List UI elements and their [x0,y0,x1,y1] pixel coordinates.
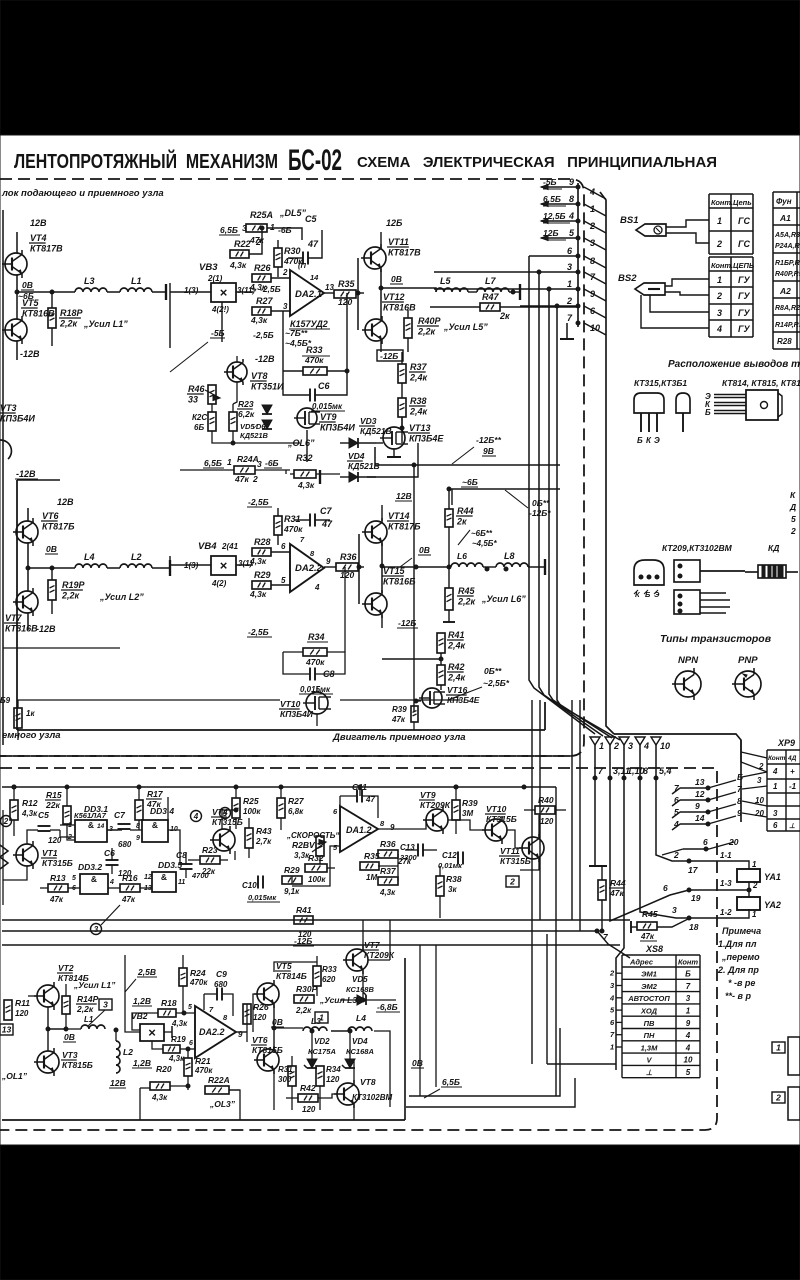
svg-text:R28: R28 [777,337,792,346]
svg-text:DD3.2: DD3.2 [78,862,102,872]
svg-text:DD3.5: DD3.5 [158,860,182,870]
svg-text:4,3к: 4,3к [249,589,267,599]
svg-text:8: 8 [643,766,648,776]
label OL3 [209,1099,236,1109]
svg-text:КД521В: КД521В [360,426,392,436]
svg-text:-12Б: -12Б [398,618,416,628]
transistor VT11c [499,834,544,866]
inductor L1b [64,1015,105,1031]
svg-text:100к: 100к [243,807,261,816]
svg-text:2,4к: 2,4к [409,407,428,417]
svg-text:R47: R47 [482,292,500,302]
svg-text:„Усил L1”: „Усил L1” [73,980,116,990]
ic DD3.5 [144,860,185,892]
svg-text:-2,5Б: -2,5Б [248,497,269,507]
transistor VT7c [343,940,395,974]
svg-text:VТ4: VТ4 [212,807,228,817]
svg-text:КТ209К: КТ209К [420,800,451,810]
svg-text:4: 4 [568,211,574,221]
svg-text:„ОL1”: „ОL1” [1,1071,28,1081]
fet VT9 [294,408,355,433]
svg-text:БС-02: БС-02 [288,144,342,177]
bus wire row2 drop [520,304,620,740]
resistor R39c [391,705,418,730]
svg-text:6Б: 6Б [194,423,204,432]
wire VT6-VT7 emitters [26,543,30,591]
svg-text:2,2к: 2,2к [457,597,476,607]
label 0V rowB2 [271,1017,284,1027]
svg-text:L4: L4 [356,1013,366,1023]
svg-text:R46: R46 [188,384,206,394]
table XS8 [622,955,700,1078]
diode VD6 [240,420,272,440]
table BS1 contacts [709,194,753,254]
svg-text:Цепь: Цепь [733,198,752,207]
circled 5 [220,808,231,819]
svg-text:СХЕМА ЭЛЕКТРИЧЕСКАЯ ПРИНЦИ: СХЕМА ЭЛЕКТРИЧЕСКАЯ ПРИНЦИПИАЛЬНАЯ [357,154,717,171]
fan row 4-14 [672,808,767,830]
resistor R41b [294,905,313,939]
svg-text:1.Для пл: 1.Для пл [718,939,757,949]
svg-text:-2,5Б: -2,5Б [248,627,269,637]
svg-text:С13: С13 [400,843,415,852]
svg-text:А1: А1 [779,213,791,223]
svg-text:12В: 12В [57,497,74,507]
svg-text:2: 2 [716,239,722,249]
svg-text:0,01мк: 0,01мк [438,861,463,870]
svg-text:-5Б: -5Б [543,177,557,187]
wires rowA extra2 [222,785,398,881]
svg-text:VВ3: VВ3 [199,262,218,273]
inductor L3b [303,1016,327,1031]
transistor VT6 [13,511,75,546]
wire to L6 line [382,565,451,569]
svg-text:Э: Э [654,436,660,445]
svg-text:1: 1 [270,222,275,232]
resistor R23c [188,845,228,876]
wire YA2 feed [687,879,758,903]
svg-text:R30: R30 [284,246,301,256]
svg-text:R26: R26 [253,1002,269,1012]
transistor VT8b [334,1077,392,1108]
fan row 7-13 [672,772,767,794]
wire bases vertical [357,258,359,330]
wire to L5 line [381,288,436,292]
svg-text:VТ13: VТ13 [409,423,431,433]
svg-text:4: 4 [193,812,199,821]
svg-text:2: 2 [282,268,288,277]
inductor L6 [451,551,483,567]
label VB4 [198,541,239,552]
svg-text:R27: R27 [288,796,305,806]
caption KT814 [722,378,800,388]
transistor VT2b [34,963,89,1010]
resistor R19b [152,1035,195,1063]
svg-text:КТ815Б: КТ815Б [62,1060,93,1070]
svg-text:6,5Б: 6,5Б [220,225,238,235]
svg-text:R36: R36 [380,839,396,849]
svg-text:120: 120 [338,297,352,307]
svg-text:R1БР,R1: R1БР,R1 [775,260,800,267]
svg-text:VТ3: VТ3 [62,1050,78,1060]
svg-text:К561ЛА7: К561ЛА7 [74,811,107,820]
svg-text:6: 6 [703,837,708,847]
resistor R46 [187,384,220,405]
wires rowB verticals [420,945,436,1096]
svg-text:К: К [790,490,796,500]
svg-text:R18Р: R18Р [60,308,84,318]
symbol PNP [732,668,761,700]
svg-text:R44: R44 [610,878,626,888]
wire VT7 down [28,613,56,634]
svg-text:-6Б: -6Б [265,458,279,468]
wire R32 row [290,473,340,475]
svg-text:КТ817Б: КТ817Б [42,522,75,532]
svg-text:ХР9: ХР9 [777,738,795,748]
svg-text:-12Б**: -12Б** [476,435,502,445]
motor caption [332,732,466,743]
svg-text:2. Для пр: 2. Для пр [717,965,759,975]
svg-text:„Усил L1”: „Усил L1” [83,319,128,329]
resistor R45c [631,909,688,941]
feedback wires [283,371,347,395]
capacitor C9 [204,969,233,1016]
svg-text:1: 1 [567,279,572,289]
wire VB3 left [170,283,211,301]
svg-text:R12: R12 [22,798,38,808]
inductor L5 [436,276,468,292]
wire 2.5V feed [125,955,140,1032]
flag 2a [506,876,519,887]
svg-text:С5: С5 [305,214,317,224]
ladder row pin 5-3 [541,228,606,250]
svg-text:4: 4 [716,324,722,334]
svg-text:КТ816В: КТ816В [22,309,55,319]
svg-text:13: 13 [2,1025,12,1035]
svg-text:С9: С9 [216,969,227,979]
label 0V rowB [63,1032,76,1042]
resistor R18P [48,292,128,346]
svg-text:120: 120 [326,1075,340,1084]
svg-text:12В: 12В [30,218,47,228]
wire L8 to terminal [483,559,545,575]
capacitor C7b [107,810,142,849]
svg-text:680: 680 [118,840,132,849]
svg-text:18: 18 [689,922,699,932]
wire YA1 feed [687,851,757,875]
svg-text:3: 3 [672,905,677,915]
svg-text:10: 10 [755,796,764,805]
svg-text:300: 300 [278,1075,292,1084]
svg-text:10: 10 [660,741,670,751]
resistor R29 [249,570,290,599]
electromagnet YA2 [737,897,781,910]
svg-text:R20: R20 [156,1064,172,1074]
svg-text:ХS8: ХS8 [645,944,663,954]
wire VB3 right [236,291,253,293]
svg-text:1: 1 [752,910,757,919]
upper block caption [1,188,164,199]
svg-text:3: 3 [717,308,722,318]
wire VT4-VT5 emitters [15,275,19,319]
svg-text:КД521В: КД521В [240,431,269,440]
svg-text:2,2к: 2,2к [61,591,80,601]
svg-text:~6Б**: ~6Б** [471,529,493,538]
svg-text:ГУ: ГУ [738,324,751,334]
wire VT5 emitter down [17,341,40,360]
inductor L1 [120,276,152,292]
transistor VT1b [13,841,73,869]
svg-text:ГУ: ГУ [738,275,751,285]
labels 0B starred [448,666,510,700]
capacitor C6 [310,381,345,411]
svg-text:Конт: Конт [678,958,698,967]
ladder row pin 7-10 [567,313,606,335]
node labels 0V [18,280,34,301]
svg-text:PNP: PNP [738,655,758,666]
svg-text:R25А: R25А [250,210,273,220]
transistor VT3 cut label [0,403,35,459]
svg-text:1: 1 [599,741,604,751]
junction node 1,10 [622,766,645,780]
svg-text:R2ВV: R2ВV [292,840,316,850]
resistor R38b [436,866,462,918]
feed row 6.5V [219,223,247,235]
svg-text:12В: 12В [110,1078,126,1088]
zener VD4b [342,1029,374,1068]
ladder voltage underlines [543,189,570,240]
inductor L8 [496,551,528,567]
svg-text:КД: КД [768,543,779,553]
svg-text:7: 7 [686,982,691,991]
heading transistor types [660,633,772,645]
resistor R19P [48,568,144,614]
svg-text:VТ11: VТ11 [388,237,409,247]
svg-text:0Б**: 0Б** [484,666,502,676]
edge cut text KD [789,490,796,536]
ladder row pin 4-2 [541,211,606,233]
ladder row pin 2-6 [566,296,606,318]
resistor R37 [398,352,428,398]
svg-text:КТ814, КТ815, КТ81Б: КТ814, КТ815, КТ81Б [722,378,800,388]
resistor R42b [298,1083,318,1114]
transistor VT8 [224,359,284,392]
wire L2 to terminal [107,560,170,576]
svg-text:+: + [790,767,795,776]
resistor R35b [360,851,380,882]
X9 corner feed [741,740,767,785]
svg-text:120: 120 [302,1105,316,1114]
feedback R34 C8 [283,567,345,694]
svg-text:VD3: VD3 [360,416,377,426]
wires rowB join [140,920,365,1120]
svg-text:R41: R41 [296,905,312,915]
svg-text:Д: Д [789,502,796,512]
svg-text:R22А: R22А [208,1075,230,1085]
svg-text:4(2): 4(2) [211,579,227,588]
svg-text:4,3к: 4,3к [151,1093,168,1102]
svg-text:0В: 0В [419,545,430,555]
svg-text:1М: 1М [366,873,377,882]
svg-text:С6: С6 [318,381,330,391]
label 12V rowB [109,1078,126,1088]
svg-text:КТ315Б: КТ315Б [486,814,517,824]
resistor R47 line [430,292,578,321]
svg-text:1: 1 [717,275,722,285]
svg-text:R38: R38 [446,874,462,884]
svg-text:L2: L2 [123,1047,133,1057]
svg-text:ГС: ГС [738,216,751,226]
wire bases vertical b [358,534,360,604]
svg-text:VТ10: VТ10 [486,804,507,814]
svg-text:2,2к: 2,2к [295,1006,312,1015]
resistor R15 [45,785,75,840]
resistor R21b [184,1049,213,1090]
svg-text:2(41: 2(41 [221,542,239,551]
svg-text:„DL5”: „DL5” [279,208,307,218]
svg-text:&: & [152,820,158,830]
svg-text:13: 13 [325,283,334,292]
fan extra 6-20 [662,837,739,855]
transistor VT5b [254,961,307,1008]
svg-text:Примеча: Примеча [722,926,761,936]
svg-text:R23: R23 [238,399,254,409]
wire L1 to terminal [107,284,166,300]
svg-text:VТ2: VТ2 [58,963,74,973]
bus entry arrow 10 [651,737,670,751]
bus wire row6 drop [529,256,595,734]
svg-text:2к: 2к [499,311,510,321]
svg-text:R35: R35 [364,851,380,861]
svg-text:47к: 47к [49,895,64,904]
bus entry arrow 3 [619,737,633,751]
svg-text:КТ815Б: КТ815Б [252,1045,283,1055]
wires box2 right verticals [532,700,580,1096]
wire VB3 input drop [170,301,222,348]
resistor R29b [282,865,302,896]
svg-text:„ОL6”: „ОL6” [287,438,315,448]
svg-text:R16: R16 [122,873,138,883]
wire 12V to VT4 [17,218,47,253]
transistor VT14 [362,511,421,546]
svg-text:L1: L1 [131,276,142,286]
svg-text:VТ7: VТ7 [364,940,381,950]
svg-text:2: 2 [609,969,615,978]
svg-text:Конт: Конт [768,755,786,762]
resistor R31b [278,1056,296,1110]
svg-text:6: 6 [773,821,778,830]
diode VD3 [340,416,392,448]
svg-text:R40Р,R5: R40Р,R5 [775,271,800,278]
svg-text:Р24А,R: Р24А,R [775,243,800,250]
svg-text:33: 33 [188,395,198,405]
rail box2 top [2,785,556,789]
svg-text:-12Б*: -12Б* [529,508,551,518]
legend box 2 [772,1087,800,1120]
svg-text:С5: С5 [38,810,49,820]
svg-text:VТ7: VТ7 [5,613,23,623]
svg-text:2: 2 [252,474,258,484]
transistor VT10c [482,804,517,844]
svg-text:R19Р: R19Р [62,580,86,590]
svg-text:10: 10 [684,1056,693,1065]
svg-text:BS1: BS1 [620,215,638,226]
resistor R36b [378,839,412,866]
resistor R27b [277,785,305,830]
svg-text:КТ3102ВМ: КТ3102ВМ [352,1093,392,1102]
svg-text:L6: L6 [457,551,467,561]
svg-text:КТ315,КТ3Б1: КТ315,КТ3Б1 [634,378,687,388]
svg-text:2к: 2к [456,517,467,527]
inner box rowB [2,958,405,1120]
svg-text:-2,5Б: -2,5Б [260,284,281,294]
svg-text:R13: R13 [50,873,66,883]
svg-text:Б9: Б9 [0,696,11,705]
bus vertical 4 [640,745,689,918]
motor box outline [17,480,545,730]
connector BS1 label [620,215,638,226]
svg-text:КП3Б4Е: КП3Б4Е [409,434,444,444]
svg-text:17: 17 [688,865,699,875]
svg-text:ЛЕНТОПРОТЯЖНЫЙ МЕХАНИЗМ: ЛЕНТОПРОТЯЖНЫЙ МЕХАНИЗМ [14,149,278,173]
wire 7 bottom [597,931,630,958]
svg-text:1: 1 [227,457,232,467]
label OL1 [1,1071,28,1081]
title text [14,144,717,177]
package KT814 [705,390,782,420]
svg-text:13: 13 [144,885,152,892]
wires VT5 VT6 [272,1005,303,1049]
svg-text:А5А,R8: А5А,R8 [774,232,800,239]
label -2.5V a [260,284,281,294]
multiplier VB4 [211,556,236,575]
rail bottom3 [547,934,616,1064]
svg-text:4,3к: 4,3к [249,556,267,566]
svg-text:11: 11 [178,879,185,886]
svg-text:3300: 3300 [400,853,418,862]
transistor VT6b [251,1035,283,1074]
label PNP [738,655,758,666]
svg-text:R39: R39 [392,705,407,714]
resistor R24b [179,955,208,1013]
svg-text:Адрес: Адрес [629,958,654,967]
wires VT2 VT3 [28,996,66,1051]
wire feed row [267,228,302,240]
junction node 5,4 [654,766,672,780]
capacitor C6b [104,848,132,878]
wire 6V top rail [452,477,560,505]
resistor R37b [378,866,398,897]
svg-text:„Усил L6”: „Усил L6” [481,594,526,604]
svg-text:2: 2 [255,237,261,247]
svg-text:6: 6 [189,1040,193,1047]
label usil L1 [73,980,116,990]
connector XS8 label [645,944,663,954]
svg-text:VТ6: VТ6 [42,511,60,521]
resistor R26 [249,263,290,292]
svg-text:ГУ: ГУ [738,291,751,301]
inductor L4 [75,552,107,568]
svg-text:4,3к: 4,3к [379,888,396,897]
svg-text:DA1.2: DA1.2 [346,825,372,835]
svg-text:VТ5: VТ5 [22,298,40,308]
junction node 8 [638,766,648,780]
svg-text:VD5: VD5 [352,975,368,984]
svg-text:КС168В: КС168В [346,985,374,994]
wire VB4 right [236,564,253,566]
svg-text:470к: 470к [189,978,208,987]
labels 0B corner [505,490,551,518]
